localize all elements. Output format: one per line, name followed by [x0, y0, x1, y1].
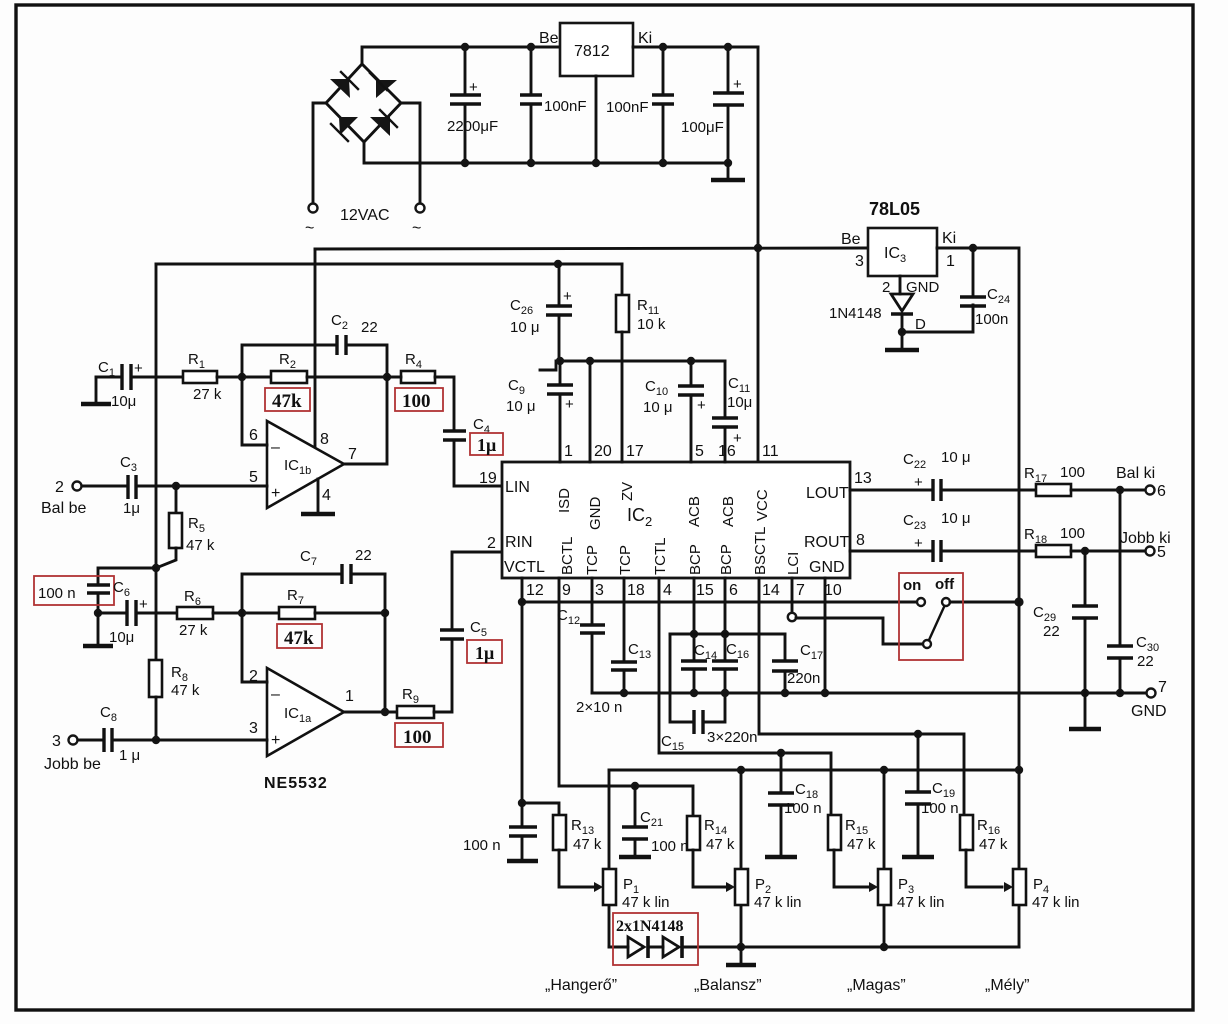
- capacitor C26 10u: [510, 264, 572, 361]
- svg-text:on: on: [903, 577, 921, 594]
- terminal: [788, 613, 796, 621]
- junction: [737, 943, 745, 951]
- svg-text:~: ~: [412, 220, 421, 237]
- resistor R1 27k: [183, 351, 222, 403]
- svg-text:D: D: [915, 316, 926, 333]
- svg-text:1μ: 1μ: [475, 643, 494, 663]
- svg-text:LCI: LCI: [785, 552, 802, 575]
- svg-text:47 k lin: 47 k lin: [754, 894, 802, 911]
- wire C15/C17 top bracket y634: [670, 633, 785, 636]
- wire AC left leg: [313, 103, 326, 203]
- svg-text:47 k lin: 47 k lin: [897, 894, 945, 911]
- wire R7 right to output line: [315, 612, 385, 615]
- junction: [754, 244, 762, 252]
- svg-text:100n: 100n: [975, 311, 1008, 328]
- svg-text:2x1N4148: 2x1N4148: [616, 918, 684, 935]
- wire top cap bus y361: [540, 361, 725, 370]
- svg-text:10μ: 10μ: [111, 393, 136, 410]
- capacitor C29 22: [1033, 551, 1098, 693]
- svg-text:+: +: [563, 288, 572, 305]
- svg-text:100 n: 100 n: [651, 838, 689, 855]
- svg-text:6: 6: [1157, 483, 1166, 500]
- resistor R15 47k: [828, 815, 876, 887]
- wire: [435, 377, 454, 431]
- svg-text:15: 15: [696, 582, 714, 599]
- red box 1u (C5): [467, 640, 502, 663]
- wire pin 7 LCI: [791, 578, 794, 613]
- svg-text:9: 9: [562, 582, 571, 599]
- junction: [880, 766, 888, 774]
- svg-text:4: 4: [322, 487, 331, 504]
- svg-text:VCTL: VCTL: [504, 559, 545, 576]
- junction: [721, 689, 729, 697]
- wire pin 12 vertical: [521, 578, 524, 803]
- svg-text:„Magas”: „Magas”: [847, 977, 906, 994]
- junction: [238, 609, 246, 617]
- capacitor C13 pin18: [611, 578, 651, 693]
- svg-text:10 k: 10 k: [637, 316, 666, 333]
- potentiometer P1 47k lin: [594, 770, 670, 947]
- svg-text:6: 6: [729, 582, 738, 599]
- svg-text:47 k: 47 k: [847, 836, 876, 853]
- red box switch: [899, 573, 963, 660]
- svg-text:RIN: RIN: [505, 534, 533, 551]
- svg-text:Ki: Ki: [638, 30, 652, 47]
- junction: [690, 630, 698, 638]
- pot supply bus y770: [609, 769, 1019, 772]
- svg-text:100 n: 100 n: [463, 837, 501, 854]
- potentiometer P2 47k lin: [726, 770, 802, 947]
- capacitor C6 10u: [98, 579, 177, 646]
- svg-text:GND: GND: [587, 497, 604, 531]
- svg-text:100nF: 100nF: [606, 99, 649, 116]
- svg-text:TCP: TCP: [584, 545, 601, 575]
- wire output pin 7: [344, 377, 387, 464]
- junction: [914, 730, 922, 738]
- wire 78L05 output: [937, 248, 1019, 602]
- red box 47k (R2): [265, 388, 310, 412]
- svg-text:100 n: 100 n: [38, 585, 76, 602]
- junction: [152, 564, 160, 572]
- junction: [690, 689, 698, 697]
- svg-text:5: 5: [695, 443, 704, 460]
- wire left vertical bias line: [155, 264, 158, 568]
- capacitor C17 220n: [772, 634, 823, 693]
- svg-text:Ki: Ki: [942, 230, 956, 247]
- resistor R11 10k: [616, 264, 666, 462]
- svg-text:BCP: BCP: [718, 544, 735, 575]
- wire bias node to 100n: [98, 568, 156, 585]
- bridge diode D-TL: [330, 72, 358, 98]
- wire pin7 to switch lever: [796, 618, 922, 644]
- svg-text:22: 22: [1043, 623, 1060, 640]
- svg-text:Bal be: Bal be: [41, 500, 86, 517]
- terminal 7 GND: [1147, 689, 1156, 698]
- 78L05 gnd pin: [899, 276, 902, 294]
- svg-text:1: 1: [345, 688, 354, 705]
- red box 1u (C4): [470, 433, 503, 455]
- svg-text:„Balansz”: „Balansz”: [694, 977, 762, 994]
- svg-text:LOUT: LOUT: [806, 485, 849, 502]
- wire R18 to Jobb ki: [1071, 550, 1146, 553]
- ground below diode: [885, 348, 919, 353]
- junction: [556, 357, 564, 365]
- wire R17 to Bal ki: [1071, 489, 1146, 492]
- svg-text:11: 11: [762, 443, 779, 460]
- wire pin 9 to R14: [559, 578, 693, 816]
- wire R6 to R7: [213, 612, 279, 615]
- bridge diode D-BR: [370, 110, 397, 136]
- ground stub below C29: [1069, 693, 1101, 729]
- svg-text:12: 12: [526, 582, 544, 599]
- junction: [631, 782, 639, 790]
- resistor R18 100: [1024, 525, 1085, 557]
- svg-text:10 μ: 10 μ: [941, 449, 971, 466]
- wire pin 20 stem: [589, 361, 592, 462]
- svg-text:47 k: 47 k: [171, 682, 200, 699]
- svg-text:1 μ: 1 μ: [119, 747, 140, 764]
- capacitor 100uF: [681, 47, 744, 163]
- svg-text:VCC: VCC: [754, 489, 771, 521]
- svg-text:ACB: ACB: [686, 496, 703, 527]
- junction: [586, 357, 594, 365]
- capacitor C18 100n: [765, 753, 822, 857]
- diode pair 2x1N4148: [609, 918, 1019, 958]
- junction: [620, 689, 628, 697]
- capacitor 2200uF: [447, 47, 498, 163]
- regulator IC3 78L05: [841, 199, 956, 276]
- wire pin 4 to R15: [659, 578, 831, 815]
- resistor R4 100: [401, 351, 435, 383]
- svg-text:10 μ: 10 μ: [643, 399, 673, 416]
- svg-text:2: 2: [487, 535, 496, 552]
- terminal 5 Jobb ki: [1146, 547, 1155, 556]
- junction: [724, 43, 732, 51]
- svg-text:+: +: [271, 485, 280, 502]
- capacitor C9 10u pin1: [506, 361, 574, 462]
- junction: [381, 609, 389, 617]
- wire feedback vertical to output: [384, 574, 387, 712]
- op-amp IC1a: [249, 668, 354, 756]
- wire bridge bottom rail: [364, 142, 728, 163]
- ground below 100n node: [83, 613, 113, 646]
- junction: [880, 943, 888, 951]
- capacitor C12 pin3: [557, 578, 605, 693]
- svg-text:5: 5: [249, 469, 258, 486]
- svg-text:GND: GND: [809, 559, 845, 576]
- svg-text:47 k: 47 k: [573, 836, 602, 853]
- svg-text:100nF: 100nF: [544, 98, 587, 115]
- capacitor C7 22 feedback: [242, 547, 385, 613]
- terminal 6 Bal ki: [1146, 486, 1155, 495]
- junction: [554, 260, 562, 268]
- svg-text:Jobb ki: Jobb ki: [1120, 530, 1171, 547]
- svg-text:22: 22: [1137, 653, 1154, 670]
- capacitor C16 pin6: [712, 578, 749, 693]
- resistor R7 47k: [279, 587, 315, 619]
- svg-text:47k: 47k: [284, 628, 314, 649]
- capacitor C24 100n: [960, 248, 1010, 328]
- svg-text:1μ: 1μ: [123, 500, 140, 517]
- junction: [94, 609, 102, 617]
- capacitor C14 pin15: [681, 578, 717, 693]
- svg-text:100 n: 100 n: [921, 800, 959, 817]
- svg-text:„Hangerő”: „Hangerő”: [545, 977, 617, 994]
- capacitor C30 22: [1107, 490, 1159, 693]
- svg-text:7: 7: [796, 582, 805, 599]
- bridge rectifier diamond: [326, 64, 401, 142]
- svg-text:100μF: 100μF: [681, 119, 724, 136]
- potentiometer P3 47k lin: [869, 770, 945, 947]
- svg-text:14: 14: [762, 582, 780, 599]
- capacitor C19 100n: [902, 734, 959, 857]
- svg-text:TCP: TCP: [617, 545, 634, 575]
- svg-text:+: +: [914, 535, 923, 552]
- junction: [381, 708, 389, 716]
- svg-text:2200μF: 2200μF: [447, 118, 498, 135]
- svg-text:BSCTL: BSCTL: [752, 527, 769, 575]
- resistor R17 100: [1024, 464, 1085, 496]
- red box 100n: [34, 576, 114, 605]
- svg-text:BCTL: BCTL: [559, 537, 576, 575]
- capacitor C1 10u: [96, 359, 183, 410]
- svg-text:TCTL: TCTL: [652, 538, 669, 576]
- wire 7812 output: [633, 46, 758, 49]
- resistor R16 47k: [960, 815, 1008, 887]
- svg-text:1N4148: 1N4148: [829, 305, 882, 322]
- junction: [1116, 486, 1124, 494]
- svg-text:8: 8: [320, 431, 329, 448]
- junction: [777, 749, 785, 757]
- svg-text:+: +: [733, 430, 742, 447]
- svg-text:47 k: 47 k: [979, 836, 1008, 853]
- svg-text:47k: 47k: [272, 391, 302, 412]
- resistor R14 47k: [687, 816, 735, 887]
- capacitor C15 3x220n: [661, 634, 757, 753]
- svg-text:2: 2: [55, 479, 64, 496]
- node pin12/R13: [518, 799, 526, 807]
- svg-text:100 n: 100 n: [784, 800, 822, 817]
- junction: [969, 244, 977, 252]
- svg-text:220n: 220n: [787, 670, 820, 687]
- IC2 box: [502, 462, 850, 578]
- svg-text:10: 10: [824, 582, 842, 599]
- junction: [821, 689, 829, 697]
- svg-text:off: off: [935, 576, 955, 593]
- wire output pin1: [344, 711, 397, 714]
- svg-text:8: 8: [856, 532, 865, 549]
- ground below 100uF: [711, 163, 745, 180]
- svg-text:3: 3: [249, 720, 258, 737]
- junction: [781, 689, 789, 697]
- svg-text:100: 100: [1060, 525, 1085, 542]
- wire +12V rail to 78L05 Be: [315, 248, 868, 249]
- red box 100 (R9): [395, 723, 443, 748]
- junction: [238, 373, 246, 381]
- svg-text:–: –: [271, 686, 280, 703]
- resistor R13 47k: [522, 803, 602, 887]
- node dots 100nF input: [527, 43, 535, 51]
- capacitor C10 10u pin5: [643, 361, 706, 462]
- svg-text:19: 19: [479, 470, 497, 487]
- capacitor 100n (P1 bias): [463, 803, 538, 861]
- AC terminal right: [416, 204, 425, 213]
- wire R9 to C5: [434, 640, 452, 712]
- junction: [721, 630, 729, 638]
- wire 7812 gnd pin: [595, 76, 598, 163]
- capacitor 100n bias: [38, 585, 110, 613]
- wire R4 to C4: [387, 376, 401, 379]
- svg-text:LIN: LIN: [505, 479, 530, 496]
- red box 2x1N4148: [613, 913, 698, 965]
- junction: [687, 357, 695, 365]
- wire bridge top to rail: [362, 47, 560, 64]
- bridge diode D-BL: [331, 117, 358, 141]
- junction: [1081, 547, 1089, 555]
- wire inverting input pin6: [242, 377, 267, 445]
- wire R2 to R4 junction: [307, 376, 387, 379]
- resistor R5 47k: [156, 486, 215, 568]
- svg-text:+: +: [469, 79, 478, 96]
- resistor R2 47k: [271, 351, 307, 383]
- junction: [1014, 597, 1023, 606]
- red box 100 (R4): [395, 388, 443, 412]
- svg-text:13: 13: [854, 470, 872, 487]
- svg-text:+: +: [733, 76, 742, 93]
- svg-text:1: 1: [564, 443, 573, 460]
- svg-text:2×10 n: 2×10 n: [576, 699, 622, 716]
- svg-text:22: 22: [361, 319, 378, 336]
- junction: [898, 328, 906, 336]
- svg-text:10 μ: 10 μ: [510, 319, 540, 336]
- wire +5V down to pot bus: [1018, 602, 1021, 770]
- input terminal 3 Jobb be: [44, 733, 103, 773]
- svg-text:100: 100: [403, 727, 432, 748]
- junction: [152, 736, 160, 744]
- junction: [1081, 689, 1089, 697]
- svg-text:~: ~: [305, 220, 314, 237]
- svg-text:17: 17: [626, 443, 644, 460]
- junction: [1015, 766, 1023, 774]
- capacitor C5 1u: [440, 552, 502, 639]
- svg-text:22: 22: [355, 547, 372, 564]
- svg-text:7: 7: [1158, 679, 1167, 696]
- svg-text:+: +: [139, 596, 148, 613]
- junction: [518, 598, 526, 606]
- capacitor C22 10u: [903, 449, 1036, 501]
- junction: [592, 159, 600, 167]
- capacitor C8 1u: [100, 704, 267, 764]
- svg-text:47 k lin: 47 k lin: [1032, 894, 1080, 911]
- diode D 1N4148: [829, 294, 926, 347]
- capacitor 100nF input: [520, 47, 587, 163]
- wire pin 14 to R16: [759, 578, 964, 815]
- svg-text:+: +: [697, 397, 706, 414]
- AC terminal left: [309, 204, 318, 213]
- input terminal 2 Bal be: [41, 479, 127, 517]
- svg-text:20: 20: [594, 443, 612, 460]
- svg-text:3: 3: [855, 253, 864, 270]
- junction: [659, 43, 667, 51]
- svg-text:Be: Be: [841, 231, 861, 248]
- svg-text:„Mély”: „Mély”: [985, 977, 1029, 994]
- svg-text:10 μ: 10 μ: [941, 510, 971, 527]
- svg-text:78L05: 78L05: [869, 199, 920, 219]
- svg-text:27 k: 27 k: [179, 622, 208, 639]
- svg-text:4: 4: [663, 582, 672, 599]
- svg-text:3: 3: [52, 733, 61, 750]
- regulator 7812: [539, 23, 652, 76]
- svg-text:12VAC: 12VAC: [340, 207, 390, 224]
- svg-text:NE5532: NE5532: [264, 775, 328, 792]
- wire R1 to R2: [217, 376, 271, 379]
- svg-text:ISD: ISD: [556, 488, 573, 513]
- svg-text:100: 100: [402, 391, 431, 412]
- wiper feed lines into pots: [595, 886, 597, 889]
- node dots 2200uF: [461, 43, 469, 51]
- wire pin 10 stem: [824, 578, 827, 693]
- wire ROUT pin8: [850, 550, 932, 553]
- ground stub left of C1: [81, 377, 111, 404]
- svg-text:7812: 7812: [574, 43, 610, 60]
- svg-text:27 k: 27 k: [193, 386, 222, 403]
- junction: [172, 482, 180, 490]
- ground below P2: [726, 947, 756, 965]
- svg-text:Jobb be: Jobb be: [44, 756, 101, 773]
- wire +12V vertical from 7812 Ki down to IC2 VCC: [757, 47, 760, 462]
- junction: [1116, 689, 1124, 697]
- red box 47k (R7): [277, 624, 322, 649]
- wire LOUT pin13: [850, 489, 932, 492]
- capacitor C2 22 feedback: [242, 312, 387, 377]
- svg-text:Bal ki: Bal ki: [1116, 465, 1155, 482]
- svg-text:10μ: 10μ: [727, 394, 752, 411]
- svg-text:10 μ: 10 μ: [506, 398, 536, 415]
- wire bias rail y=264: [156, 263, 622, 266]
- svg-text:ROUT: ROUT: [804, 534, 850, 551]
- svg-text:ACB: ACB: [720, 496, 737, 527]
- svg-text:18: 18: [627, 582, 645, 599]
- svg-text:BCP: BCP: [687, 544, 704, 575]
- svg-text:47 k: 47 k: [706, 836, 735, 853]
- svg-text:3: 3: [595, 582, 604, 599]
- svg-text:Be: Be: [539, 30, 559, 47]
- capacitor C3 1u: [120, 454, 267, 517]
- potentiometer P4 47k lin: [1004, 770, 1080, 947]
- svg-text:100: 100: [1060, 464, 1085, 481]
- svg-text:+: +: [134, 360, 143, 377]
- svg-text:1: 1: [946, 253, 955, 270]
- wire pin 4 ground: [301, 479, 335, 514]
- junction: [383, 373, 391, 381]
- switch on/off: [903, 576, 1019, 648]
- capacitor C11 10u pin16: [712, 361, 752, 462]
- svg-text:47 k lin: 47 k lin: [622, 894, 670, 911]
- capacitor 100nF output: [606, 47, 674, 163]
- op-amp IC1b: [249, 421, 344, 508]
- svg-text:6: 6: [249, 427, 258, 444]
- svg-text:+: +: [271, 732, 280, 749]
- capacitor C4 1u: [443, 416, 502, 486]
- svg-text:10μ: 10μ: [109, 629, 134, 646]
- capacitor C23 10u: [903, 510, 1036, 562]
- bridge diode D-TR: [370, 73, 397, 98]
- svg-text:+: +: [565, 396, 574, 413]
- svg-text:3×220n: 3×220n: [707, 729, 757, 746]
- svg-text:+: +: [914, 474, 923, 491]
- svg-text:GND: GND: [1131, 703, 1167, 720]
- svg-text:1μ: 1μ: [477, 435, 496, 455]
